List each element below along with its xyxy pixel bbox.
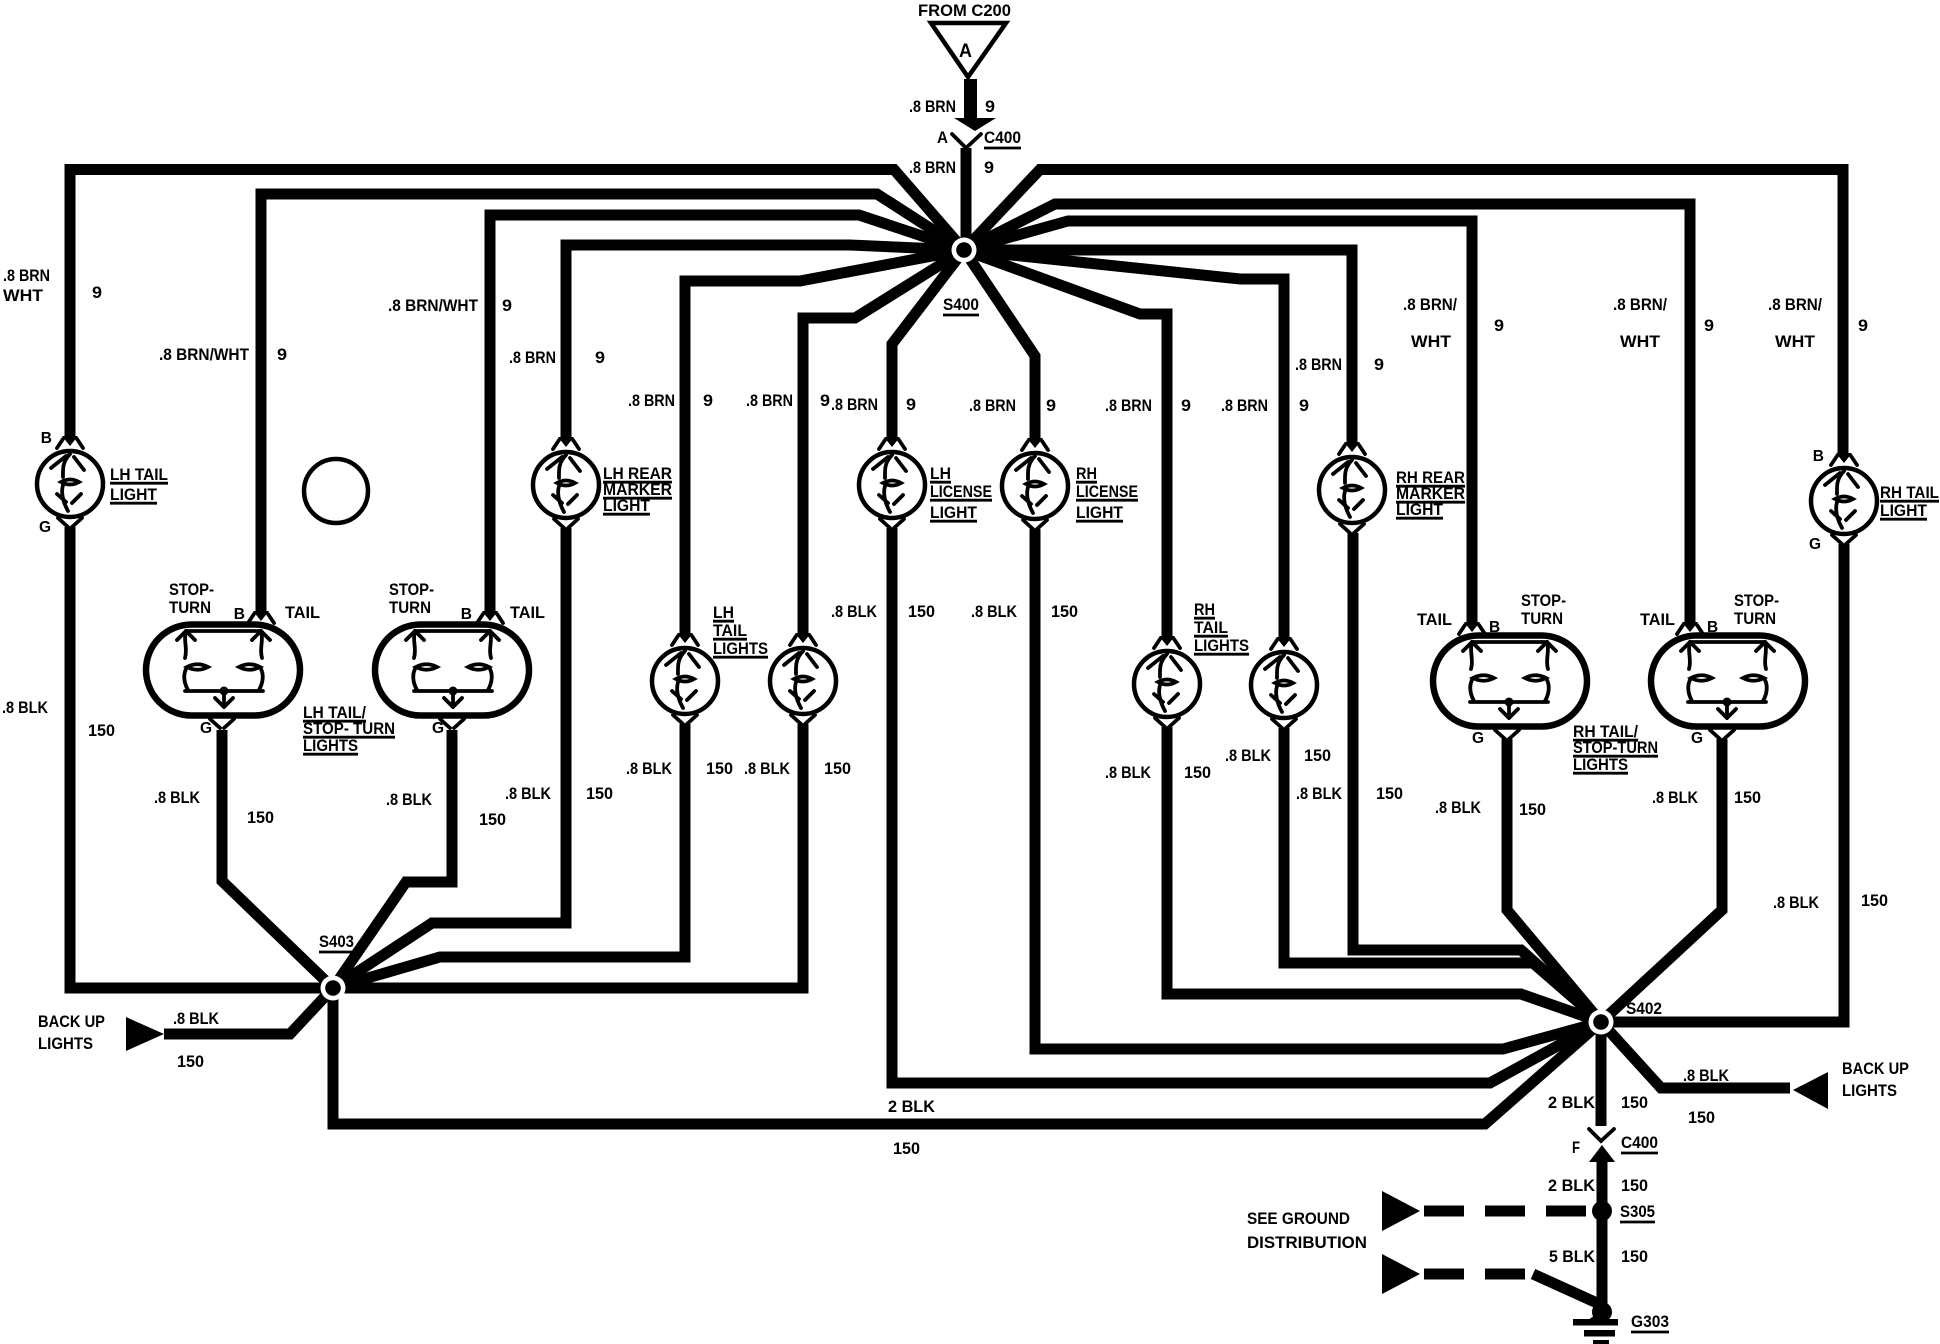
bulb LH LICENSE LIGHT — [859, 437, 925, 528]
svg-text:WHT: WHT — [1411, 332, 1452, 351]
svg-text:RH: RH — [1194, 600, 1215, 619]
splice S402 — [1589, 999, 1663, 1035]
svg-text:STOP-: STOP- — [389, 580, 434, 599]
svg-text:150: 150 — [1184, 763, 1211, 782]
lamp LH TAIL/STOP-TURN LIGHTS 1 — [146, 611, 300, 728]
lamp RH TAIL/STOP-TURN LIGHTS 2 — [1651, 622, 1805, 739]
svg-text:B: B — [41, 430, 52, 447]
label LH LICENSE LIGHT — [930, 464, 992, 522]
svg-text:TAIL: TAIL — [1417, 610, 1452, 629]
wire .8 BRN 9 from S400 to RH TAIL LIGHTS bulb 2 — [964, 250, 1284, 638]
svg-text:9: 9 — [502, 296, 512, 315]
svg-text:G: G — [432, 720, 444, 737]
lamp LH TAIL/STOP-TURN LIGHTS 2 — [375, 611, 529, 728]
wire .8 BRN/WHT 9 from S400 to RH TAIL/STOP-TURN lamp 2 terminal B — [964, 204, 1690, 623]
svg-text:150: 150 — [1376, 784, 1403, 803]
bulb RH REAR MARKER LIGHT — [1319, 442, 1385, 533]
wire .8 BRN/WHT 9 from S400 to LH TAIL LIGHT terminal B — [70, 170, 964, 438]
svg-text:.8 BRN: .8 BRN — [909, 97, 956, 116]
svg-text:.8 BRN: .8 BRN — [1221, 396, 1268, 415]
svg-text:DISTRIBUTION: DISTRIBUTION — [1247, 1233, 1367, 1252]
svg-text:TURN: TURN — [1521, 609, 1563, 628]
svg-text:9: 9 — [595, 348, 605, 367]
svg-text:.8 BRN: .8 BRN — [969, 396, 1016, 415]
wire .8 BRN 9 from C400 to splice S400 — [961, 148, 972, 250]
svg-text:RH: RH — [1076, 464, 1097, 483]
svg-text:LH: LH — [930, 464, 951, 483]
label LH TAIL/STOP-TURN LIGHTS — [303, 703, 395, 755]
wire .8 BRN/WHT 9 from S400 to LH TAIL/STOP-TURN lamp 2 terminal B — [490, 215, 964, 612]
label RH TAIL/STOP-TURN LIGHTS — [1573, 722, 1658, 774]
wire .8 BRN/WHT 9 from S400 to RH TAIL/STOP-TURN lamp 1 terminal B — [964, 221, 1472, 623]
ground G303 — [1573, 1302, 1669, 1344]
svg-text:LIGHT: LIGHT — [1880, 501, 1928, 520]
svg-text:.8 BLK: .8 BLK — [971, 602, 1018, 621]
svg-text:150: 150 — [824, 759, 851, 778]
svg-text:BACK UP: BACK UP — [38, 1012, 105, 1031]
wire .8 BLK 150 from RH LICENSE LIGHT to S402 — [1035, 529, 1601, 1049]
svg-text:SEE GROUND: SEE GROUND — [1247, 1209, 1350, 1228]
bulb LH TAIL LIGHTS bulb 1 — [652, 633, 718, 724]
svg-text:150: 150 — [1519, 800, 1546, 819]
svg-text:TURN: TURN — [389, 598, 431, 617]
wire .8 BRN 9 from S400 to LH REAR MARKER LIGHT — [566, 245, 964, 438]
svg-text:9: 9 — [703, 391, 713, 410]
svg-text:S400: S400 — [943, 295, 979, 314]
svg-text:9: 9 — [1858, 316, 1868, 335]
splice S400 — [943, 238, 979, 316]
wire .8 BLK 150 from RH REAR MARKER LIGHT to S402 — [1353, 533, 1601, 1022]
svg-text:.8 BLK: .8 BLK — [505, 784, 552, 803]
svg-text:2 BLK: 2 BLK — [1548, 1176, 1596, 1195]
svg-text:STOP-: STOP- — [1734, 591, 1779, 610]
svg-text:B: B — [461, 606, 472, 623]
svg-text:150: 150 — [247, 808, 274, 827]
svg-text:.8 BLK: .8 BLK — [1652, 788, 1699, 807]
svg-text:TAIL: TAIL — [510, 603, 545, 622]
wire .8 BLK 150 from BACK UP LIGHTS to S403 — [164, 988, 333, 1034]
dashed wire to G303 (see ground distribution) — [1424, 1274, 1597, 1303]
svg-text:RH TAIL: RH TAIL — [1880, 483, 1939, 502]
svg-text:BACK UP: BACK UP — [1842, 1059, 1909, 1078]
svg-text:LIGHTS: LIGHTS — [38, 1034, 93, 1053]
svg-text:LH: LH — [713, 603, 734, 622]
svg-text:TAIL: TAIL — [285, 603, 320, 622]
svg-text:LICENSE: LICENSE — [930, 482, 992, 501]
off-page arrow to BACK UP LIGHTS (left) — [38, 1012, 164, 1053]
svg-text:2 BLK: 2 BLK — [1548, 1093, 1596, 1112]
label LH REAR MARKER LIGHT — [603, 464, 672, 515]
svg-text:B: B — [1707, 619, 1718, 636]
bulb RH LICENSE LIGHT — [1002, 438, 1068, 529]
svg-text:150: 150 — [1688, 1108, 1715, 1127]
svg-text:.8 BLK: .8 BLK — [626, 759, 673, 778]
svg-text:.8 BLK: .8 BLK — [1773, 893, 1820, 912]
connector C400 (bottom) pin F — [1572, 1129, 1658, 1157]
svg-text:.8 BRN: .8 BRN — [509, 348, 556, 367]
wire 2 BLK 150 from S402 to connector C400 (bottom) — [1596, 1022, 1607, 1126]
wire 5 BLK 150 from S305 to ground G303 — [1597, 1211, 1608, 1312]
svg-text:150: 150 — [908, 602, 935, 621]
wire .8 BRN 9 from triangle A to connector C400 — [954, 79, 996, 131]
svg-text:150: 150 — [586, 784, 613, 803]
svg-text:9: 9 — [1494, 316, 1504, 335]
svg-text:.8 BRN/: .8 BRN/ — [1403, 295, 1457, 314]
wire .8 BLK 150 from RH TAIL/STOP-TURN lamp 1 terminal G to S402 — [1507, 739, 1601, 1022]
svg-text:A: A — [959, 41, 972, 62]
svg-text:LIGHT: LIGHT — [1076, 503, 1124, 522]
svg-text:LIGHT: LIGHT — [930, 503, 978, 522]
svg-text:TAIL: TAIL — [713, 621, 747, 640]
svg-text:F: F — [1572, 1138, 1580, 1157]
svg-text:9: 9 — [277, 345, 287, 364]
bulb RH TAIL LIGHTS bulb 2 — [1251, 637, 1317, 728]
svg-text:150: 150 — [88, 721, 115, 740]
svg-text:9: 9 — [1046, 396, 1056, 415]
svg-text:C400: C400 — [984, 128, 1021, 147]
wire 2 BLK 150 from C400 to splice S305 — [1589, 1145, 1615, 1212]
svg-text:9: 9 — [1374, 355, 1384, 374]
svg-text:LIGHTS: LIGHTS — [1194, 636, 1249, 655]
svg-text:150: 150 — [1304, 746, 1331, 765]
wire .8 BLK 150 from RH TAIL LIGHT terminal G to S402 — [1601, 544, 1844, 1022]
svg-text:G: G — [1691, 730, 1703, 747]
svg-text:.8 BLK: .8 BLK — [2, 698, 49, 717]
svg-text:.8 BLK: .8 BLK — [386, 790, 433, 809]
svg-text:.8 BLK: .8 BLK — [173, 1009, 220, 1028]
connector C400 (top) pin A — [937, 128, 1021, 148]
svg-text:A: A — [937, 128, 948, 147]
svg-text:.8 BLK: .8 BLK — [831, 602, 878, 621]
off-page arrow to BACK UP LIGHTS (right) — [1793, 1059, 1909, 1109]
svg-text:.8 BLK: .8 BLK — [1683, 1066, 1730, 1085]
svg-text:150: 150 — [479, 810, 506, 829]
svg-text:WHT: WHT — [1775, 332, 1816, 351]
svg-text:TURN: TURN — [169, 598, 211, 617]
svg-text:LIGHT: LIGHT — [603, 496, 651, 515]
svg-text:TAIL: TAIL — [1194, 618, 1228, 637]
wire .8 BRN 9 from S400 to RH TAIL LIGHTS bulb 1 — [964, 250, 1167, 637]
svg-text:LH TAIL: LH TAIL — [110, 465, 168, 484]
svg-text:.8 BRN: .8 BRN — [831, 395, 878, 414]
svg-text:LIGHT: LIGHT — [110, 485, 158, 504]
label SEE GROUND DISTRIBUTION — [1247, 1209, 1367, 1252]
bulb LH REAR MARKER LIGHT — [533, 437, 599, 528]
wire .8 BLK 150 from LH TAIL/STOP-TURN lamp 1 terminal G to S403 — [222, 730, 333, 988]
svg-text:B: B — [1489, 619, 1500, 636]
svg-text:150: 150 — [1861, 891, 1888, 910]
svg-text:STOP-: STOP- — [1521, 591, 1566, 610]
bulb LH TAIL LIGHTS bulb 2 — [770, 633, 836, 724]
svg-text:5 BLK: 5 BLK — [1549, 1247, 1596, 1266]
svg-text:G: G — [1809, 536, 1821, 553]
svg-text:LIGHTS: LIGHTS — [303, 736, 358, 755]
wire .8 BLK 150 from LH LICENSE LIGHT to splice S402 — [892, 528, 1601, 1083]
svg-text:.8 BRN: .8 BRN — [909, 158, 956, 177]
svg-text:FROM C200: FROM C200 — [918, 1, 1011, 20]
splice S305 — [1592, 1201, 1655, 1222]
wire .8 BLK 150 from RH TAIL/STOP-TURN lamp 2 terminal G to S402 — [1601, 739, 1722, 1022]
svg-text:.8 BRN: .8 BRN — [1105, 396, 1152, 415]
svg-text:B: B — [1813, 448, 1824, 465]
wire .8 BLK 150 from LH TAIL/STOP-TURN lamp 2 terminal G to S403 — [333, 730, 452, 988]
svg-text:.8 BLK: .8 BLK — [1435, 798, 1482, 817]
svg-text:.8 BRN/: .8 BRN/ — [1613, 295, 1667, 314]
svg-text:LICENSE: LICENSE — [1076, 482, 1138, 501]
svg-text:TAIL: TAIL — [1640, 610, 1675, 629]
wire .8 BRN 9 from S400 to RH LICENSE LIGHT — [964, 250, 1035, 439]
wire .8 BRN 9 from S400 to LH LICENSE LIGHT — [892, 250, 964, 438]
dashed wire to S305 (see ground distribution) — [1424, 1206, 1588, 1217]
svg-text:.8 BRN: .8 BRN — [3, 266, 50, 285]
svg-text:9: 9 — [1181, 396, 1191, 415]
svg-text:150: 150 — [706, 759, 733, 778]
off-page arrow (ground distribution, upper) — [1382, 1191, 1420, 1231]
svg-text:STOP-: STOP- — [169, 580, 214, 599]
svg-text:150: 150 — [1621, 1247, 1648, 1266]
label RH TAIL LIGHTS — [1194, 600, 1249, 655]
svg-text:C400: C400 — [1621, 1133, 1658, 1152]
svg-text:150: 150 — [1621, 1093, 1648, 1112]
splice S403 — [319, 932, 354, 1001]
svg-text:.8 BLK: .8 BLK — [1225, 746, 1272, 765]
svg-text:9: 9 — [985, 97, 995, 116]
off-page arrow (ground distribution, lower) — [1382, 1254, 1420, 1294]
lamp RH TAIL/STOP-TURN LIGHTS 1 — [1433, 622, 1587, 739]
svg-text:.8 BLK: .8 BLK — [1296, 784, 1343, 803]
svg-text:S402: S402 — [1626, 999, 1662, 1018]
svg-text:9: 9 — [906, 395, 916, 414]
wire .8 BRN/WHT 9 from S400 to LH TAIL/STOP-TURN lamp 1 terminal B — [261, 194, 964, 612]
label LH TAIL LIGHTS — [713, 603, 768, 658]
svg-text:.8 BLK: .8 BLK — [744, 759, 791, 778]
wire .8 BLK 150 from LH TAIL LIGHTS bulb 2 to S403 — [333, 724, 803, 988]
svg-text:9: 9 — [820, 391, 830, 410]
svg-text:.8 BRN: .8 BRN — [628, 391, 675, 410]
svg-text:9: 9 — [1299, 396, 1309, 415]
svg-text:.8 BRN/: .8 BRN/ — [1768, 295, 1822, 314]
wire .8 BRN/WHT 9 from S400 to RH TAIL LIGHT terminal B — [964, 170, 1843, 455]
svg-text:LIGHTS: LIGHTS — [1842, 1081, 1897, 1100]
svg-text:G: G — [39, 519, 51, 536]
svg-text:150: 150 — [177, 1052, 204, 1071]
wire .8 BRN 9 from S400 to RH REAR MARKER LIGHT — [964, 250, 1352, 443]
svg-text:9: 9 — [984, 158, 994, 177]
svg-text:.8 BRN: .8 BRN — [1295, 355, 1342, 374]
label RH TAIL LIGHT — [1880, 483, 1939, 520]
wire .8 BLK 150 from RH TAIL LIGHTS bulb 1 to S402 — [1167, 727, 1601, 1022]
label RH LICENSE LIGHT — [1076, 464, 1138, 522]
svg-text:2 BLK: 2 BLK — [888, 1097, 936, 1116]
svg-text:S403: S403 — [319, 932, 354, 951]
svg-text:LIGHTS: LIGHTS — [713, 639, 768, 658]
unused connector circle — [304, 459, 368, 523]
svg-text:LIGHTS: LIGHTS — [1573, 755, 1628, 774]
bulb LH TAIL LIGHT — [37, 436, 103, 527]
svg-text:150: 150 — [1734, 788, 1761, 807]
wire .8 BLK 150 from LH REAR MARKER LIGHT to S403 — [333, 528, 566, 988]
svg-text:.8 BRN/WHT: .8 BRN/WHT — [388, 296, 479, 315]
svg-text:9: 9 — [1704, 316, 1714, 335]
svg-text:.8 BLK: .8 BLK — [154, 788, 201, 807]
svg-text:TURN: TURN — [1734, 609, 1776, 628]
wire .8 BLK 150 from S402 to BACK UP LIGHTS (right) — [1601, 1022, 1790, 1088]
svg-text:S305: S305 — [1620, 1202, 1655, 1221]
off-page connector triangle A from C200 — [931, 23, 1006, 77]
svg-text:WHT: WHT — [1620, 332, 1661, 351]
bulb RH TAIL LIGHT — [1811, 453, 1877, 544]
wire .8 BLK 150 from RH TAIL LIGHTS bulb 2 to S402 — [1284, 728, 1601, 1022]
wire .8 BLK 150 from LH TAIL LIGHT terminal G to splice S403 — [70, 527, 333, 988]
svg-text:.8 BLK: .8 BLK — [1105, 763, 1152, 782]
svg-text:.8 BRN/WHT: .8 BRN/WHT — [159, 345, 250, 364]
label RH REAR MARKER LIGHT — [1396, 468, 1465, 519]
wire .8 BRN 9 from S400 to LH TAIL LIGHTS bulb 2 — [803, 250, 964, 634]
svg-text:B: B — [234, 606, 245, 623]
svg-text:150: 150 — [893, 1139, 920, 1158]
svg-text:G: G — [1472, 730, 1484, 747]
wire .8 BLK 150 from LH TAIL LIGHTS bulb 1 to S403 — [333, 724, 685, 988]
svg-text:LIGHT: LIGHT — [1396, 500, 1444, 519]
wire 2 BLK 150 from S403 to splice S402 — [333, 988, 1601, 1124]
label LH TAIL LIGHT — [110, 465, 168, 504]
svg-text:G: G — [200, 720, 212, 737]
wire .8 BRN 9 from S400 to LH TAIL LIGHTS bulb 1 — [685, 250, 964, 634]
svg-text:150: 150 — [1051, 602, 1078, 621]
svg-text:9: 9 — [92, 283, 102, 302]
svg-text:G303: G303 — [1631, 1312, 1669, 1331]
bulb RH TAIL LIGHTS bulb 1 — [1134, 636, 1200, 727]
svg-text:WHT: WHT — [3, 286, 44, 305]
svg-text:150: 150 — [1621, 1176, 1648, 1195]
svg-text:.8 BRN: .8 BRN — [746, 391, 793, 410]
